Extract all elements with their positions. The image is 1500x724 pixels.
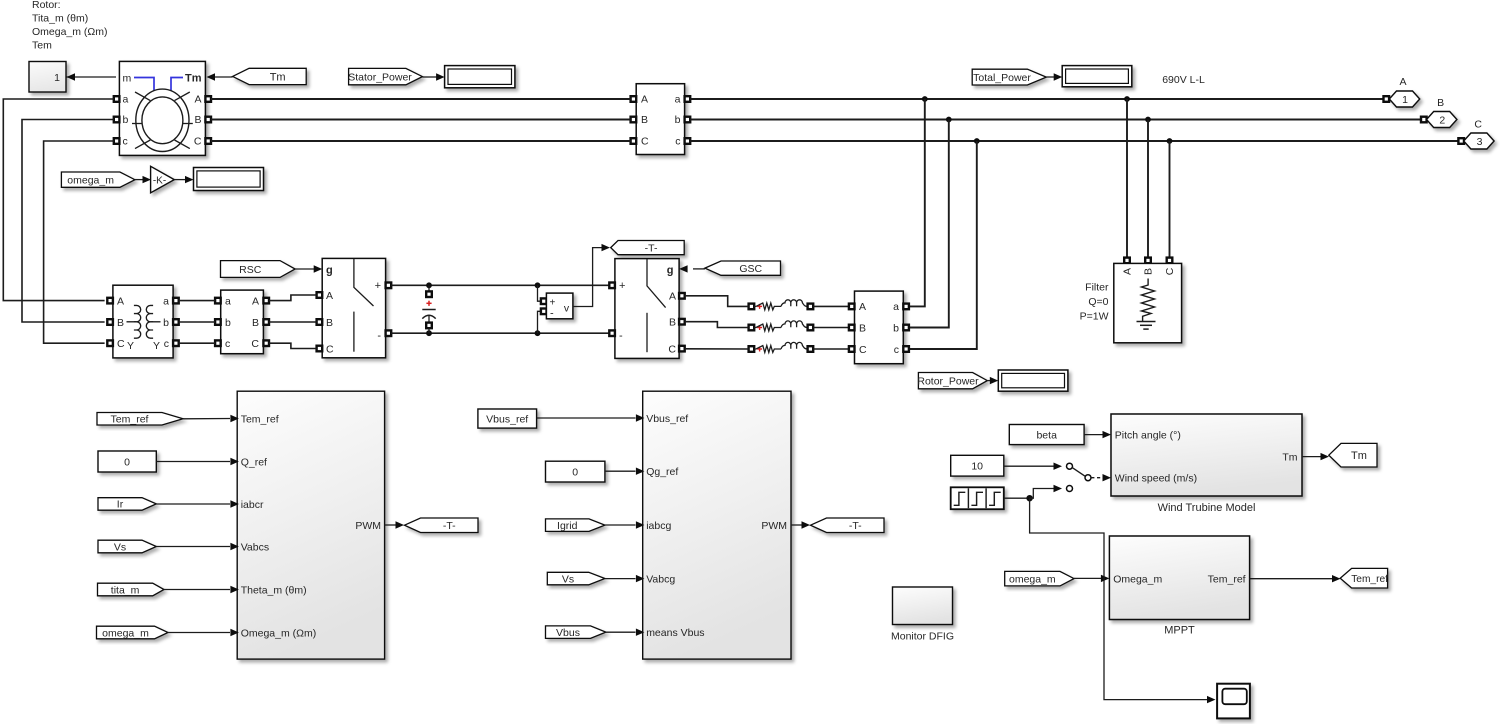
svg-text:Total_Power: Total_Power [973,72,1031,84]
manual switch wind source [1067,463,1112,491]
svg-text:a: a [675,94,681,106]
svg-text:g: g [326,265,333,277]
constant 0 (Qg_ref) [546,461,605,482]
svg-text:A: A [669,291,676,303]
from tag omega_m (speed) [61,172,134,187]
wire RSC to converter gate [295,268,314,270]
svg-text:b: b [893,322,899,334]
svg-text:Y: Y [153,340,160,352]
from tag RSC [221,261,296,278]
node DC+ cap [426,282,432,288]
svg-text:Tm: Tm [185,73,202,85]
wire rotor phase c [44,141,114,343]
subsystem MPPT [1109,536,1249,620]
outport 1 (rotor measurement out) [29,62,66,93]
svg-text:Vbus_ref: Vbus_ref [486,413,528,425]
svg-text:-K-: -K- [153,175,166,186]
svg-text:A: A [1122,268,1134,275]
svg-text:C: C [117,338,125,350]
svg-text:A: A [641,94,648,106]
wire omega_m ctrl [168,632,230,634]
svg-text:c: c [225,338,230,350]
svg-text:C: C [859,344,867,356]
wire 10 to switch [1004,465,1054,467]
svg-text:690V L-L: 690V L-L [1162,74,1205,86]
from tag Vs [98,540,156,553]
voltage measurement Vbus [538,285,573,333]
svg-text:-: - [550,308,554,320]
svg-text:A: A [252,295,259,307]
goto tag -T- RSC pwm [405,518,479,533]
svg-text:Tm: Tm [1282,452,1297,464]
wire bus phase C left [211,140,631,142]
wire 0 Qg_ref [605,470,636,472]
wire bus phase B left [211,119,631,121]
svg-text:c: c [123,136,128,148]
from tag Tm [233,68,307,84]
svg-text:A: A [117,295,124,307]
svg-text:Vs: Vs [114,541,126,553]
from tag omega_m (mppt) [1005,571,1074,586]
node B to filter [1145,117,1151,123]
wire gain to display [174,179,186,181]
svg-text:B: B [669,317,676,329]
svg-text:Y: Y [127,340,134,352]
scope wind speed [1217,684,1250,719]
svg-text:PWM: PWM [761,520,787,532]
svg-text:Monitor DFIG: Monitor DFIG [891,631,954,643]
svg-text:iabcg: iabcg [646,520,671,532]
svg-text:B: B [1437,97,1444,109]
svg-text:C: C [668,343,676,355]
svg-text:Tem_ref: Tem_ref [111,414,149,426]
svg-text:C: C [326,344,334,356]
port 1 phase A [1384,96,1390,102]
goto tag Tem_ref [1340,568,1388,588]
svg-text:B: B [194,114,201,126]
wire transformer to rotor measurement [179,300,215,302]
svg-text:Tem_ref: Tem_ref [1351,574,1388,585]
svg-text:Theta_m (θm): Theta_m (θm) [241,584,307,596]
svg-text:Vs: Vs [562,573,574,585]
display Rotor_Power [998,370,1068,391]
svg-text:m: m [123,73,132,85]
svg-text:-T-: -T- [443,520,456,532]
svg-text:Tem: Tem [32,40,52,52]
svg-text:tita_m: tita_m [111,584,140,596]
subsystem GSC control [636,391,791,659]
svg-text:beta: beta [1036,429,1057,441]
svg-text:Tm: Tm [1351,450,1367,462]
svg-text:C: C [194,136,202,148]
svg-text:Qg_ref: Qg_ref [646,466,678,478]
svg-text:Tm: Tm [270,71,286,83]
svg-text:omega_m: omega_m [102,627,149,639]
goto tag Tm [1329,443,1377,467]
capacitor DC link [422,285,435,333]
svg-text:-T-: -T- [645,242,658,254]
svg-text:+: + [619,280,625,292]
svg-text:Omega_m (Ωm): Omega_m (Ωm) [32,26,108,38]
wire Vbus_ref [537,417,636,419]
node DC- cap [426,330,432,336]
wire rotor phase b [22,120,114,323]
from tag Total_Power [972,69,1046,85]
svg-text:-T-: -T- [849,520,862,532]
svg-text:omega_m: omega_m [1009,573,1056,585]
wire GSC C to RL C [685,348,749,350]
goto tag -T- (DC voltage) [611,241,685,255]
svg-text:Q=0: Q=0 [1088,296,1108,308]
RL branch C [749,342,814,352]
wire rotor phase a [3,99,114,301]
svg-text:-: - [377,330,381,342]
svg-text:a: a [893,301,899,313]
wire vmeas to goto -T- [573,248,602,307]
wire GSC B to RL B [685,322,749,328]
wire omega_m to MPPT [1074,577,1101,579]
svg-text:P=1W: P=1W [1080,311,1109,323]
display speed [194,168,264,191]
svg-text:B: B [117,317,124,329]
wire Stator_Power to display [422,76,437,78]
svg-text:10: 10 [971,461,983,473]
svg-text:RSC: RSC [239,264,262,276]
svg-text:0: 0 [572,467,578,479]
svg-text:Vbus_ref: Vbus_ref [646,413,688,425]
svg-text:1: 1 [1402,94,1408,106]
asynchronous machine (DFIG) [114,61,211,155]
svg-text:Wind speed (m/s): Wind speed (m/s) [1115,473,1197,485]
node B [946,117,952,123]
svg-text:C: C [251,338,259,350]
wire bus phase C right [690,140,1458,142]
wire rotor meas to RSC C [269,343,317,348]
wire DC bus plus [391,284,609,286]
wire Tm tag to machine [214,76,233,78]
svg-text:C: C [641,136,649,148]
from tag Vs (grid) [547,572,605,585]
svg-text:A: A [1399,76,1406,88]
wire WTM Tm out [1302,456,1321,458]
node A to filter [1124,96,1130,102]
wire beta to pitch angle [1084,434,1103,436]
svg-text:Tita_m (θm): Tita_m (θm) [32,13,88,25]
svg-text:Vabcg: Vabcg [646,574,675,586]
svg-text:3: 3 [1477,136,1483,148]
svg-text:Filter: Filter [1085,282,1109,294]
wire Total_Power to display [1046,76,1054,78]
grid side converter GSC [609,259,684,359]
subsystem RSC control [230,391,384,659]
wire MPPT Tem_ref out [1250,578,1333,580]
svg-text:Rotor:: Rotor: [32,0,61,11]
svg-text:Igrid: Igrid [557,520,578,532]
wire GSC tag to gate [693,268,705,270]
from tag Tem_ref [97,413,183,426]
svg-text:B: B [1143,268,1155,275]
svg-text:b: b [225,317,231,329]
filter three-phase RLC load [1114,258,1182,343]
svg-text:GSC: GSC [739,263,762,275]
svg-text:Omega_m (Ωm): Omega_m (Ωm) [241,627,317,639]
wire Vs [156,546,230,548]
wire Rotor_Power to display [987,380,991,382]
repeating sequence wind profile [951,487,1004,509]
from tag Ir [98,498,156,511]
svg-text:a: a [163,295,169,307]
svg-text:+: + [375,280,381,292]
node DC+ vmeas [535,282,541,288]
svg-text:g: g [667,265,674,277]
svg-text:B: B [641,114,648,126]
gain K- [151,166,175,193]
svg-text:PWM: PWM [355,520,381,532]
from tag Vbus [546,626,606,639]
display Stator_Power [445,66,515,88]
svg-text:Rotor_Power: Rotor_Power [917,375,979,387]
subsystem Monitor DFIG [893,587,953,625]
wire node to switch lower input [1030,489,1054,499]
from tag omega_m (ctrl) [97,626,169,639]
rotor side converter RSC [317,258,392,357]
constant 10 (wind speed) [951,455,1004,476]
svg-text:Ir: Ir [117,499,124,511]
svg-text:Stator_Power: Stator_Power [348,71,412,83]
from tag Rotor_Power [917,373,987,389]
wire machine m to outport 1 [67,76,117,78]
from tag tita_m [98,583,165,596]
svg-text:c: c [894,344,899,356]
svg-text:C: C [1164,267,1176,275]
constant 0 (Q_ref) [98,451,156,472]
from tag GSC [705,261,781,275]
wire PWM to goto -T- (RSC) [385,524,396,526]
port 2 phase B [1421,117,1427,123]
wire Vbus [606,631,636,633]
node wind select [1026,495,1032,501]
wire bus phase A left [211,98,631,100]
svg-text:Tem_ref: Tem_ref [1208,573,1246,585]
node C [974,138,980,144]
svg-text:B: B [326,317,333,329]
svg-text:2: 2 [1439,114,1445,126]
wire Ir [156,503,230,505]
svg-text:c: c [164,338,169,350]
wire wind profile to scope [1030,498,1208,699]
svg-text:A: A [194,94,201,106]
three-phase transformer Y-Y [107,285,178,358]
svg-text:a: a [123,94,129,106]
svg-text:b: b [163,317,169,329]
three-phase VI measurement rotor [215,290,269,354]
svg-text:iabcr: iabcr [241,499,264,511]
svg-text:0: 0 [124,456,130,468]
svg-text:B: B [859,322,866,334]
svg-text:C: C [1474,119,1482,131]
svg-text:B: B [252,317,259,329]
subsystem Wind Turbine Model [1111,414,1302,496]
wire RL A to grid meas [813,305,852,307]
svg-text:Q_ref: Q_ref [241,456,267,468]
svg-text:b: b [123,114,129,126]
svg-text:Omega_m: Omega_m [1113,573,1162,585]
node A to rotor-side converter bus [922,96,928,102]
wire rotor meas to RSC B [269,321,317,323]
svg-text:omega_m: omega_m [67,174,114,186]
wire Igrid [605,524,636,526]
wire 0 to Q_ref [156,461,230,463]
wire bus phase A right [690,98,1383,100]
svg-text:Vabcs: Vabcs [241,541,269,553]
svg-text:-: - [619,330,623,342]
svg-text:MPPT: MPPT [1164,625,1195,637]
port 3 phase C [1458,138,1464,144]
wire omega_m to gain [135,179,144,181]
wire PWM to goto -T- (GSC) [791,524,802,526]
wire tita_m [164,589,230,591]
svg-text:A: A [326,290,333,302]
svg-text:1: 1 [54,72,60,84]
goto tag -T- GSC pwm [811,518,885,533]
three-phase VI measurement grid side [849,291,909,364]
wire GSC A to RL A [685,296,749,307]
svg-text:a: a [225,295,231,307]
from tag Igrid [546,519,605,532]
wire DC bus minus [391,332,609,334]
RL branch A [749,300,814,310]
display Total_Power [1062,66,1132,87]
svg-text:Vbus: Vbus [556,627,580,639]
svg-text:Pitch angle (°): Pitch angle (°) [1115,430,1181,442]
svg-text:c: c [675,136,680,148]
wire rotor meas to RSC A [269,295,317,301]
svg-text:Wind Trubine Model: Wind Trubine Model [1158,502,1256,514]
wire RL B to grid meas [813,327,852,329]
wire RL C to grid meas [813,348,852,350]
svg-text:b: b [675,114,681,126]
RL branch B [749,321,814,331]
svg-text:means Vbus: means Vbus [646,627,704,639]
wire Tem_ref [183,418,230,420]
svg-text:v: v [564,302,570,314]
constant Vbus_ref [478,409,537,428]
svg-text:Tem_ref: Tem_ref [241,413,279,425]
wire step source to node [1004,497,1030,499]
node C to filter [1167,138,1173,144]
svg-text:A: A [859,301,866,313]
wire Vs grid [605,578,636,580]
from tag Stator_Power [348,68,422,84]
node DC- vmeas [535,330,541,336]
wire bus phase B right [690,119,1421,121]
three-phase VI measurement stator [631,84,691,155]
constant beta [1009,425,1084,445]
